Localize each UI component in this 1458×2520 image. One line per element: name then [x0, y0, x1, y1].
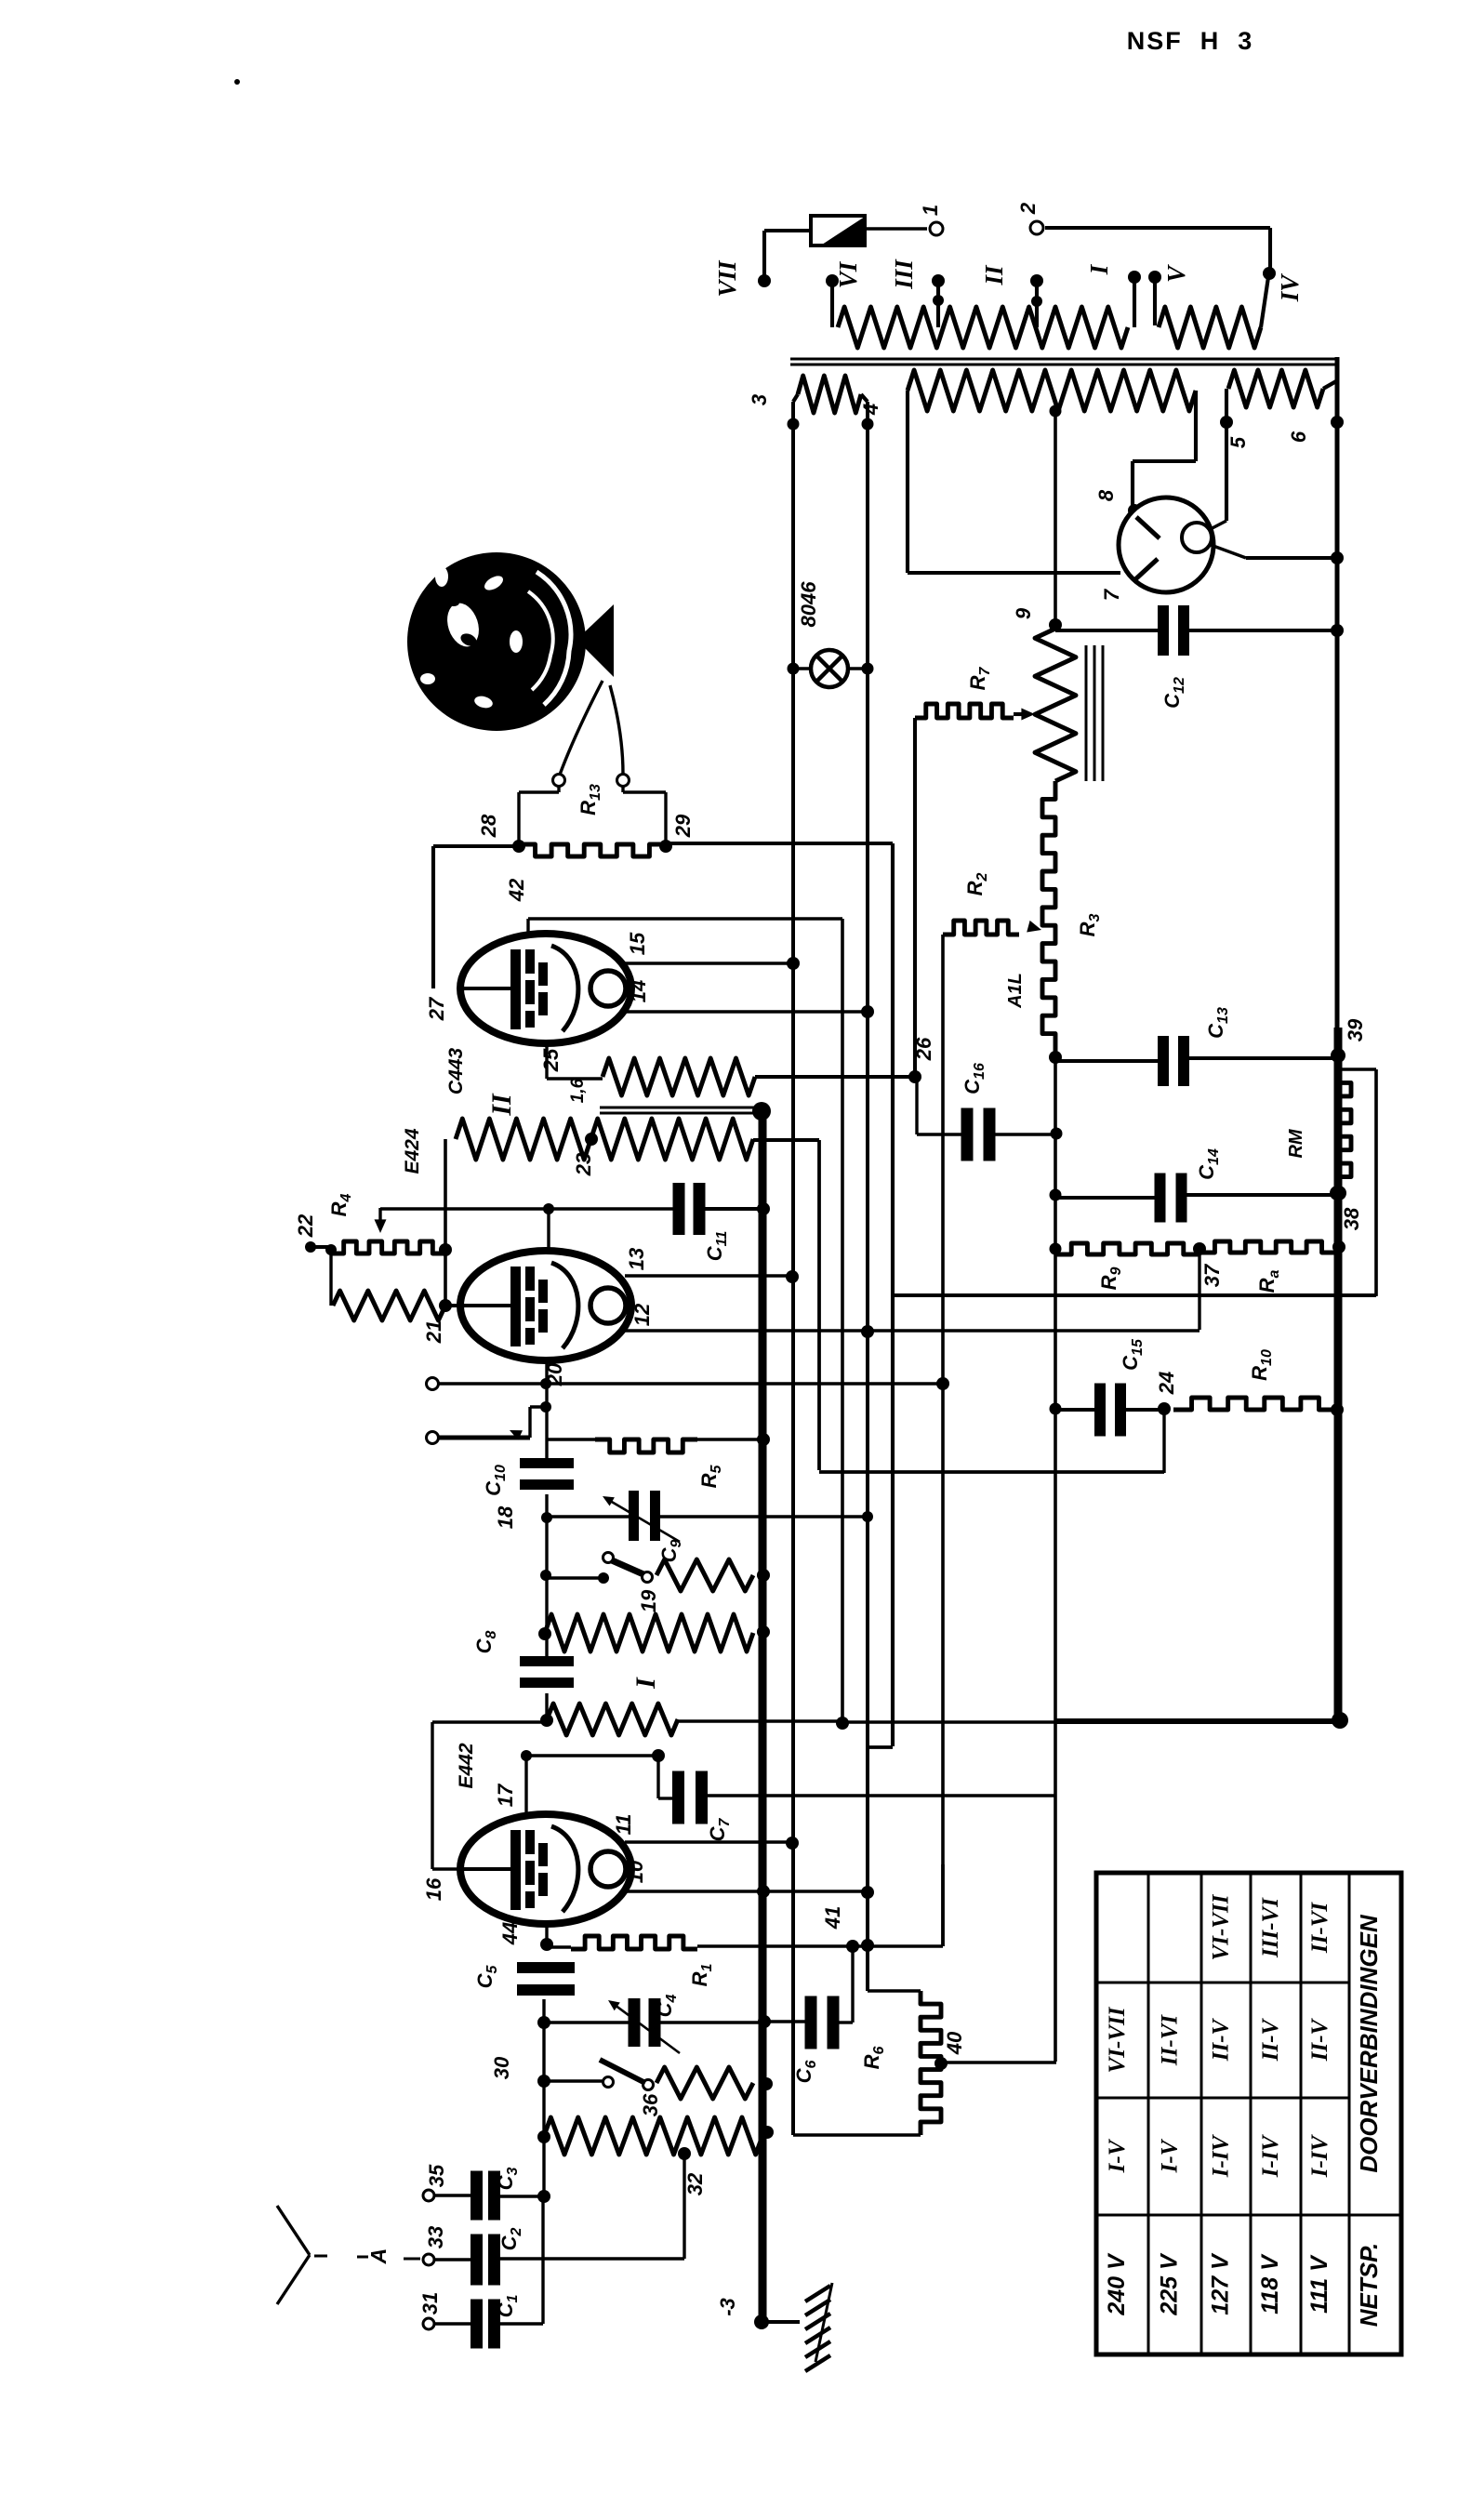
- svg-text:18: 18: [494, 1505, 517, 1529]
- svg-text:7: 7: [1100, 588, 1123, 601]
- svg-text:15: 15: [626, 932, 649, 955]
- svg-text:II-VI: II-VI: [1158, 2014, 1183, 2066]
- svg-text:33: 33: [424, 2226, 447, 2248]
- svg-text:23: 23: [572, 1153, 595, 1176]
- svg-text:A: A: [366, 2248, 391, 2265]
- svg-text:22: 22: [294, 1214, 317, 1238]
- svg-text:II: II: [486, 1093, 517, 1117]
- svg-text:2: 2: [1016, 202, 1040, 215]
- svg-text:6: 6: [1287, 431, 1310, 443]
- svg-text:II-VI: II-VI: [1307, 1902, 1332, 1954]
- svg-text:225 V: 225 V: [1157, 2252, 1183, 2316]
- svg-text:II-V: II-V: [1209, 2017, 1234, 2062]
- svg-text:A1L: A1L: [1005, 973, 1026, 1009]
- svg-text:9: 9: [1012, 607, 1035, 619]
- svg-text:I: I: [1085, 263, 1113, 275]
- svg-text:1,6: 1,6: [568, 1078, 588, 1103]
- svg-text:I: I: [630, 1677, 661, 1690]
- svg-text:10: 10: [624, 1860, 647, 1883]
- svg-text:C443: C443: [445, 1048, 467, 1095]
- svg-text:37: 37: [1200, 1263, 1224, 1287]
- svg-text:35: 35: [425, 2164, 448, 2187]
- svg-text:30: 30: [490, 2056, 513, 2079]
- svg-text:127 V: 127 V: [1208, 2252, 1234, 2315]
- svg-text:4: 4: [859, 404, 882, 416]
- svg-text:NETSP.: NETSP.: [1355, 2243, 1383, 2328]
- svg-text:IV: IV: [1276, 273, 1304, 303]
- svg-text:21: 21: [422, 1320, 445, 1344]
- svg-text:5: 5: [1226, 436, 1250, 448]
- svg-text:I-V: I-V: [1105, 2138, 1130, 2173]
- svg-text:1: 1: [919, 205, 942, 216]
- svg-text:-3: -3: [716, 2298, 739, 2316]
- svg-text:38: 38: [1340, 1207, 1363, 1230]
- svg-text:V: V: [1162, 264, 1190, 283]
- svg-text:II: II: [980, 264, 1008, 286]
- svg-text:8: 8: [1094, 489, 1118, 501]
- svg-text:III: III: [890, 259, 918, 290]
- svg-text:III-VI: III-VI: [1258, 1897, 1283, 1958]
- svg-text:240 V: 240 V: [1104, 2252, 1130, 2316]
- svg-text:111 V: 111 V: [1306, 2254, 1332, 2314]
- svg-text:E424: E424: [402, 1128, 423, 1174]
- svg-text:VI: VI: [834, 260, 862, 288]
- svg-text:DOORVERBINDINGEN: DOORVERBINDINGEN: [1355, 1914, 1383, 2173]
- svg-text:I-IV: I-IV: [1258, 2133, 1283, 2178]
- svg-text:16: 16: [422, 1877, 445, 1901]
- svg-text:24: 24: [1155, 1372, 1178, 1395]
- svg-text:14: 14: [627, 980, 650, 1002]
- svg-text:31: 31: [418, 2292, 442, 2314]
- svg-text:36: 36: [639, 2093, 662, 2116]
- svg-text:17: 17: [494, 1783, 517, 1807]
- svg-text:VI-VII: VI-VII: [1105, 2006, 1130, 2073]
- svg-text:32: 32: [683, 2172, 707, 2195]
- svg-text:I-IV: I-IV: [1307, 2133, 1332, 2178]
- svg-text:118 V: 118 V: [1257, 2253, 1283, 2314]
- svg-text:3: 3: [748, 394, 771, 405]
- svg-text:II-V: II-V: [1307, 2017, 1332, 2062]
- svg-text:I-IV: I-IV: [1209, 2133, 1234, 2178]
- svg-text:12: 12: [630, 1303, 654, 1326]
- svg-text:40: 40: [943, 2031, 966, 2055]
- svg-text:29: 29: [671, 814, 695, 838]
- svg-text:13: 13: [625, 1248, 648, 1270]
- svg-text:26: 26: [912, 1037, 935, 1061]
- svg-text:VI-VII: VI-VII: [1209, 1893, 1234, 1960]
- svg-text:42: 42: [505, 878, 528, 902]
- svg-text:44: 44: [498, 1922, 522, 1945]
- svg-text:28: 28: [477, 814, 500, 838]
- svg-text:25: 25: [539, 1048, 563, 1072]
- svg-text:19: 19: [637, 1589, 660, 1612]
- svg-text:NSF H 3: NSF H 3: [1127, 27, 1254, 55]
- svg-text:I-V: I-V: [1158, 2138, 1183, 2173]
- svg-text:39: 39: [1344, 1018, 1367, 1041]
- svg-text:11: 11: [612, 1814, 635, 1836]
- svg-text:27: 27: [425, 996, 448, 1021]
- svg-text:RM: RM: [1286, 1128, 1306, 1158]
- svg-text:VII: VII: [713, 259, 741, 298]
- svg-text:8046: 8046: [797, 581, 820, 628]
- svg-text:41: 41: [821, 1906, 844, 1930]
- svg-text:II-V: II-V: [1258, 2017, 1283, 2062]
- svg-text:E442: E442: [456, 1743, 477, 1788]
